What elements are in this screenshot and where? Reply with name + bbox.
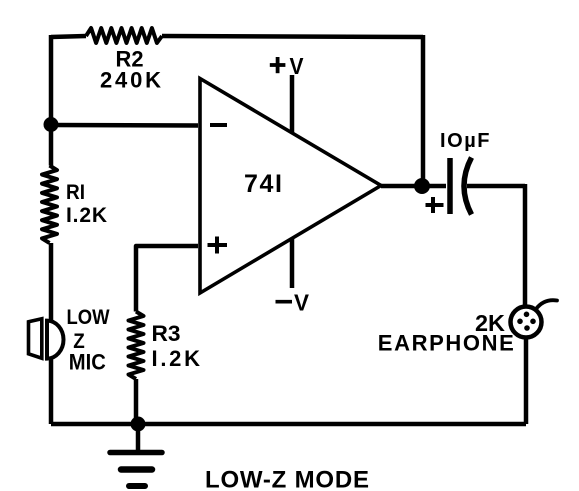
svg-text:V: V	[294, 290, 310, 316]
svg-text:IOµF: IOµF	[440, 130, 490, 152]
svg-text:R3: R3	[152, 321, 181, 346]
svg-text:EARPHONE: EARPHONE	[378, 331, 514, 356]
svg-text:MIC: MIC	[69, 350, 106, 375]
svg-text:74I: 74I	[244, 170, 282, 198]
svg-text:V: V	[290, 53, 305, 79]
svg-text:I.2K: I.2K	[66, 204, 107, 227]
svg-text:240K: 240K	[100, 68, 161, 93]
svg-text:LOW: LOW	[67, 306, 110, 329]
svg-text:RI: RI	[66, 181, 85, 204]
svg-text:LOW-Z MODE: LOW-Z MODE	[205, 467, 369, 491]
